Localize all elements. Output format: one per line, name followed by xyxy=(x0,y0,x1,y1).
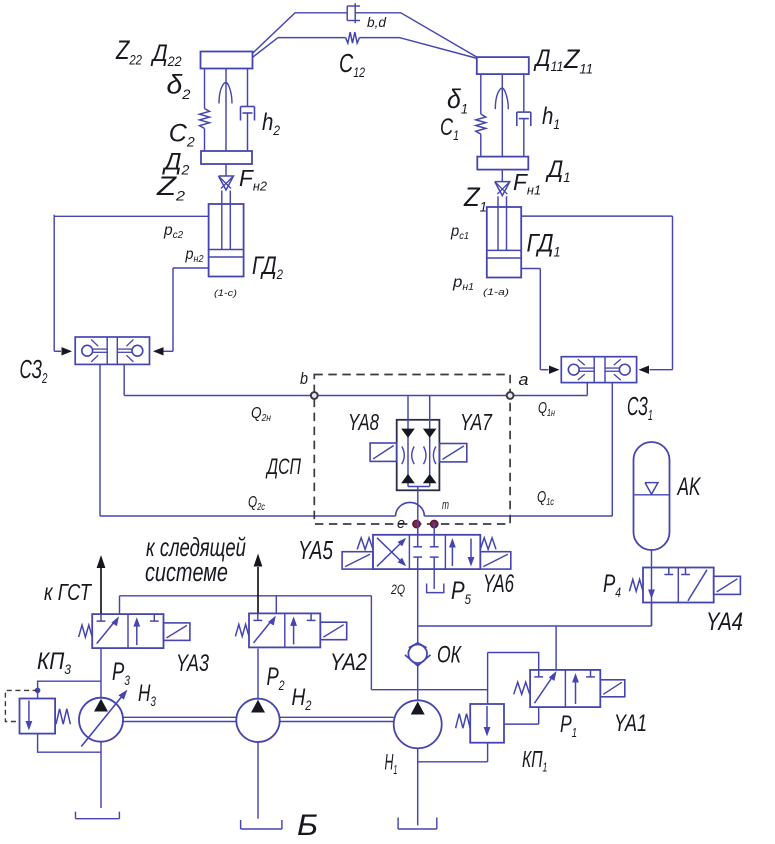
svg-text:(1-c): (1-c) xyxy=(214,289,237,299)
svg-text:системе: системе xyxy=(145,557,228,586)
svg-text:(1-a): (1-a) xyxy=(483,287,509,297)
svg-text:2Q: 2Q xyxy=(390,582,405,598)
svg-text:YA7: YA7 xyxy=(460,411,493,436)
svg-text:т: т xyxy=(442,498,449,512)
svg-text:YA2: YA2 xyxy=(330,648,367,675)
svg-text:YA6: YA6 xyxy=(483,570,514,598)
svg-text:ОК: ОК xyxy=(437,642,462,668)
svg-text:AK: AK xyxy=(676,473,702,501)
svg-text:e: e xyxy=(397,516,405,532)
svg-text:Б: Б xyxy=(297,808,318,839)
svg-text:YA1: YA1 xyxy=(614,711,647,737)
svg-text:b,d: b,d xyxy=(367,14,387,30)
svg-text:YA5: YA5 xyxy=(298,535,333,565)
svg-text:a: a xyxy=(519,369,529,388)
svg-text:YA3: YA3 xyxy=(176,651,209,677)
svg-text:b: b xyxy=(300,370,308,388)
svg-text:к ГСТ: к ГСТ xyxy=(44,580,92,605)
svg-text:ДСП: ДСП xyxy=(265,456,301,480)
svg-text:YA8: YA8 xyxy=(348,411,380,436)
svg-text:YA4: YA4 xyxy=(706,607,743,636)
